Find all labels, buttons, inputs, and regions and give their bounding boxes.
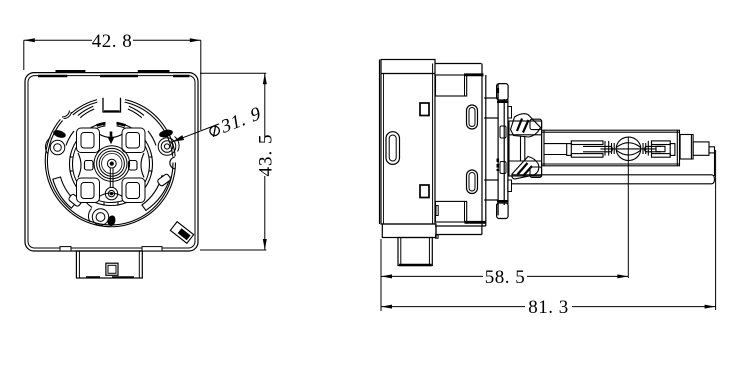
svg-text:43. 5: 43. 5 <box>255 134 276 177</box>
svg-text:58. 5: 58. 5 <box>485 267 526 288</box>
svg-text:42. 8: 42. 8 <box>92 31 133 52</box>
svg-text:81. 3: 81. 3 <box>528 297 569 318</box>
